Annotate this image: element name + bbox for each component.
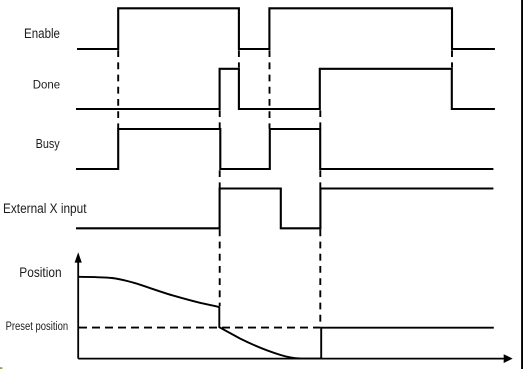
dashed time marker t5 x=320 (ExtX low to preset level) — [319, 229, 321, 327]
position curve (deceleration, drop at t2, to zero) — [78, 277, 321, 359]
label External X input — [3, 201, 87, 216]
wire Done trace — [76, 69, 495, 109]
dashed time marker t2 x=220 (Done low to Busy high) — [219, 110, 221, 128]
position plot x-axis — [78, 354, 513, 363]
wire Enable trace — [77, 8, 495, 49]
bottom-left corner artifact mark — [0, 367, 2, 369]
svg-text:Done: Done — [33, 78, 60, 92]
svg-text:Preset position: Preset position — [6, 319, 69, 333]
svg-text:Enable: Enable — [24, 26, 60, 41]
position plot y-axis — [75, 252, 82, 358]
wire External X input trace — [76, 189, 493, 229]
dashed time marker t5 x=320 (Busy low to ExtX high) — [319, 170, 321, 188]
label Enable — [24, 26, 60, 41]
dashed time marker t6 x=452 (Enable low to Done high) — [451, 50, 453, 67]
wire Busy trace — [76, 129, 493, 169]
label Position — [19, 265, 61, 280]
dashed time marker t3 x=239 (Enable low to Done high) — [238, 50, 240, 67]
dashed time marker t1 x=118 — [117, 50, 119, 128]
position jump to preset at t5 and preset hold line — [321, 328, 494, 359]
svg-text:Busy: Busy — [36, 136, 60, 151]
dashed time marker t4 x=269 — [269, 50, 271, 128]
dashed preset position level line — [79, 327, 320, 329]
dashed time marker t5 x=320 (Done low to Busy high) — [319, 110, 321, 128]
right page border — [521, 0, 523, 369]
label Done — [33, 78, 60, 92]
dashed time marker t2 x=220 (ExtX low to position curve) — [219, 229, 221, 306]
label Preset position — [6, 319, 69, 333]
svg-text:Position: Position — [19, 265, 61, 280]
label Busy — [36, 136, 60, 151]
dashed time marker t2 x=220 (Busy low to ExtX high) — [219, 170, 221, 188]
svg-text:External X input: External X input — [3, 201, 87, 216]
